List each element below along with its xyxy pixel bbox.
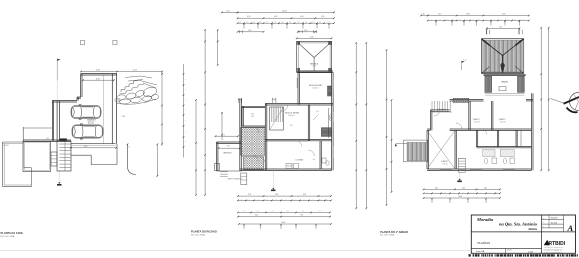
- svg-text:RTBIDI: RTBIDI: [549, 241, 566, 247]
- svg-text:4.40: 4.40: [310, 36, 313, 38]
- svg-text:3.80: 3.80: [274, 16, 277, 18]
- svg-text:1:100: 1:100: [528, 251, 534, 253]
- svg-text:na Qta. Sta. António: na Qta. Sta. António: [499, 222, 538, 227]
- svg-text:2.88: 2.88: [466, 14, 469, 16]
- svg-text:Sintra: Sintra: [528, 227, 537, 231]
- svg-text:4.30: 4.30: [300, 16, 303, 18]
- svg-text:15.60: 15.60: [282, 10, 287, 12]
- svg-text:14.30: 14.30: [281, 222, 285, 224]
- svg-text:4.10: 4.10: [438, 14, 441, 16]
- svg-text:A: A: [567, 223, 574, 233]
- svg-text:1.05: 1.05: [122, 116, 126, 118]
- svg-text:4.85: 4.85: [84, 146, 87, 148]
- svg-text:4.20: 4.20: [247, 16, 250, 18]
- svg-text:2.30: 2.30: [226, 10, 229, 12]
- svg-text:2.90: 2.90: [502, 14, 505, 16]
- svg-text:2.30: 2.30: [321, 16, 324, 18]
- svg-text:PLANTAS: PLANTAS: [478, 241, 491, 245]
- svg-text:Moradia: Moradia: [476, 217, 494, 222]
